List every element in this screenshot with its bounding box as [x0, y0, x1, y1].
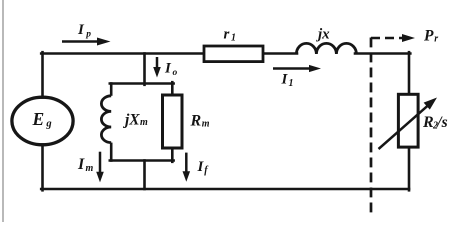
- source E_g: [12, 97, 73, 145]
- svg-text:r: r: [224, 27, 230, 43]
- svg-text:E: E: [32, 109, 45, 129]
- wire: shunt feed from top rail: [143, 54, 146, 85]
- wire: R_m bottom stub: [171, 148, 174, 162]
- svg-text:p: p: [85, 30, 91, 40]
- inductor jX_m: [101, 82, 148, 162]
- svg-text:P: P: [424, 28, 434, 45]
- current arrow I_m: [77, 152, 104, 183]
- inductor jx: [296, 27, 356, 55]
- wire: right drop below R2/s: [408, 147, 411, 191]
- svg-text:m: m: [140, 117, 148, 128]
- wire: right drop above R2/s: [408, 52, 411, 95]
- svg-text:jx: jx: [316, 27, 330, 43]
- svg-text:/s: /s: [436, 114, 447, 131]
- wire: shunt top bus: [110, 82, 174, 85]
- current arrow I_f: [183, 153, 210, 182]
- resistor r1: [204, 27, 263, 62]
- dashed power-flow arrow P_r: [371, 28, 438, 45]
- svg-text:I: I: [164, 61, 172, 77]
- svg-text:jX: jX: [122, 112, 140, 129]
- wire: shunt bottom bus: [110, 159, 174, 162]
- svg-text:1: 1: [231, 33, 236, 44]
- svg-text:I: I: [77, 22, 85, 38]
- svg-text:1: 1: [289, 78, 294, 89]
- current arrow I_p: [62, 22, 111, 46]
- wire: left drop above source: [41, 52, 44, 97]
- resistor R_m: [163, 95, 210, 148]
- wire: top rail left segment: [41, 52, 204, 55]
- svg-text:o: o: [173, 68, 178, 78]
- svg-text:I: I: [197, 159, 205, 175]
- svg-text:m: m: [86, 163, 94, 174]
- current arrow I_1: [273, 65, 321, 89]
- wire: bottom rail: [41, 188, 409, 191]
- wire: left drop below source: [41, 145, 44, 191]
- air-gap boundary dashed line: [370, 38, 373, 214]
- wire: shunt return to bottom rail: [143, 161, 146, 190]
- current arrow I_o: [153, 57, 177, 78]
- svg-text:g: g: [45, 119, 51, 130]
- wire: top rail between r1 and jx: [263, 52, 297, 55]
- wire: R_m top stub: [171, 82, 174, 95]
- svg-text:I: I: [77, 156, 85, 173]
- svg-text:r: r: [434, 33, 438, 44]
- wire: top rail right segment: [355, 52, 410, 55]
- variable resistor R2/s: [379, 94, 448, 149]
- svg-text:m: m: [202, 119, 210, 130]
- svg-text:R: R: [190, 113, 202, 130]
- svg-text:I: I: [281, 72, 289, 88]
